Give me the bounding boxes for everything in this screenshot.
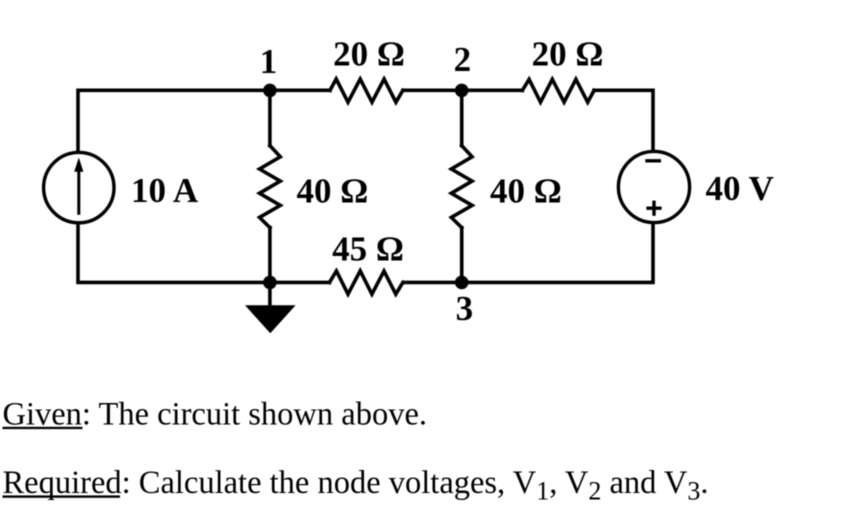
caption: Required line [3, 465, 709, 506]
resistor R4 40 ohm (left vertical) [260, 146, 281, 228]
value label 40 ohm (R5) [490, 172, 562, 211]
node 1 junction dot [263, 84, 277, 98]
svg-text:40 V: 40 V [706, 169, 774, 208]
value label 40 ohm (R4) [297, 172, 369, 211]
resistor R2 20 ohm (top right) [522, 79, 594, 102]
svg-text:40 Ω: 40 Ω [490, 172, 562, 211]
wire node 2 down to R5 [460, 90, 464, 145]
resistor R5 40 ohm (right vertical) [451, 146, 472, 228]
node 2 junction dot [455, 84, 469, 98]
svg-text:40 Ω: 40 Ω [297, 172, 369, 211]
svg-text:1: 1 [260, 42, 278, 81]
value label 45 ohm (R3) [332, 230, 404, 269]
wire ground stub [268, 282, 272, 307]
node 3 junction dot [455, 276, 469, 290]
svg-text:20 Ω: 20 Ω [333, 35, 405, 74]
ground node junction dot [263, 276, 277, 290]
voltage source V1 circle [618, 151, 689, 222]
svg-text:Required: Calculate the node v: Required: Calculate the node voltages, V… [3, 465, 709, 506]
wire top right: R2 to corner down to voltage source [594, 90, 653, 150]
value label 20 ohm (R1) [333, 35, 405, 74]
wire left lower + bottom run to R3 (45 ohm) [78, 223, 330, 282]
resistor R1 20 ohm (top left) [330, 79, 403, 102]
svg-text:45 Ω: 45 Ω [332, 230, 404, 269]
value label 20 ohm (R2) [532, 35, 604, 74]
svg-text:2: 2 [454, 40, 472, 79]
wire R4 bottom to ground node [268, 228, 272, 283]
value label 10 A (I1) [131, 171, 199, 210]
value label 40 V (V1) [706, 169, 774, 208]
svg-text:3: 3 [456, 289, 474, 328]
wire bottom right: R3 to node 3 to corner up to voltage source [404, 224, 653, 283]
voltage source V1 plus sign [646, 201, 661, 216]
wire top middle: R1 to node 2 to R2 [403, 89, 522, 93]
wire node 1 down to R4 [268, 90, 272, 145]
wire R5 bottom to node 3 [460, 228, 464, 283]
voltage source V1 minus sign [645, 159, 661, 162]
current source I1 arrow [74, 158, 83, 215]
node 1 label [260, 42, 278, 81]
resistor R3 45 ohm (bottom) [330, 271, 403, 294]
wire top-left: left branch upper + top run to R1 [78, 90, 330, 152]
svg-text:20 Ω: 20 Ω [532, 35, 604, 74]
current source I1 circle [44, 152, 114, 222]
node 2 label [454, 40, 472, 79]
ground symbol [245, 305, 296, 333]
svg-text:10 A: 10 A [131, 171, 199, 210]
caption: Given line [3, 396, 428, 432]
node 3 label [456, 289, 474, 328]
